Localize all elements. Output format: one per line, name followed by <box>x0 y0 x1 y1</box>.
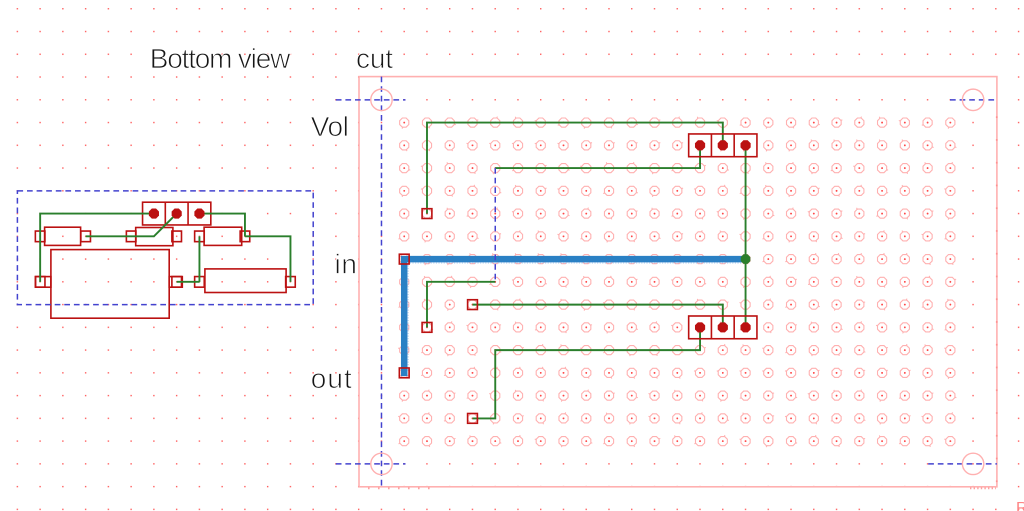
svg-text:Vol: Vol <box>311 111 349 142</box>
svg-text:in: in <box>335 248 358 279</box>
svg-text:R: R <box>1016 500 1024 511</box>
svg-text:Bottom view: Bottom view <box>150 43 291 74</box>
svg-text:out: out <box>311 363 352 394</box>
svg-text:cut: cut <box>356 43 393 74</box>
